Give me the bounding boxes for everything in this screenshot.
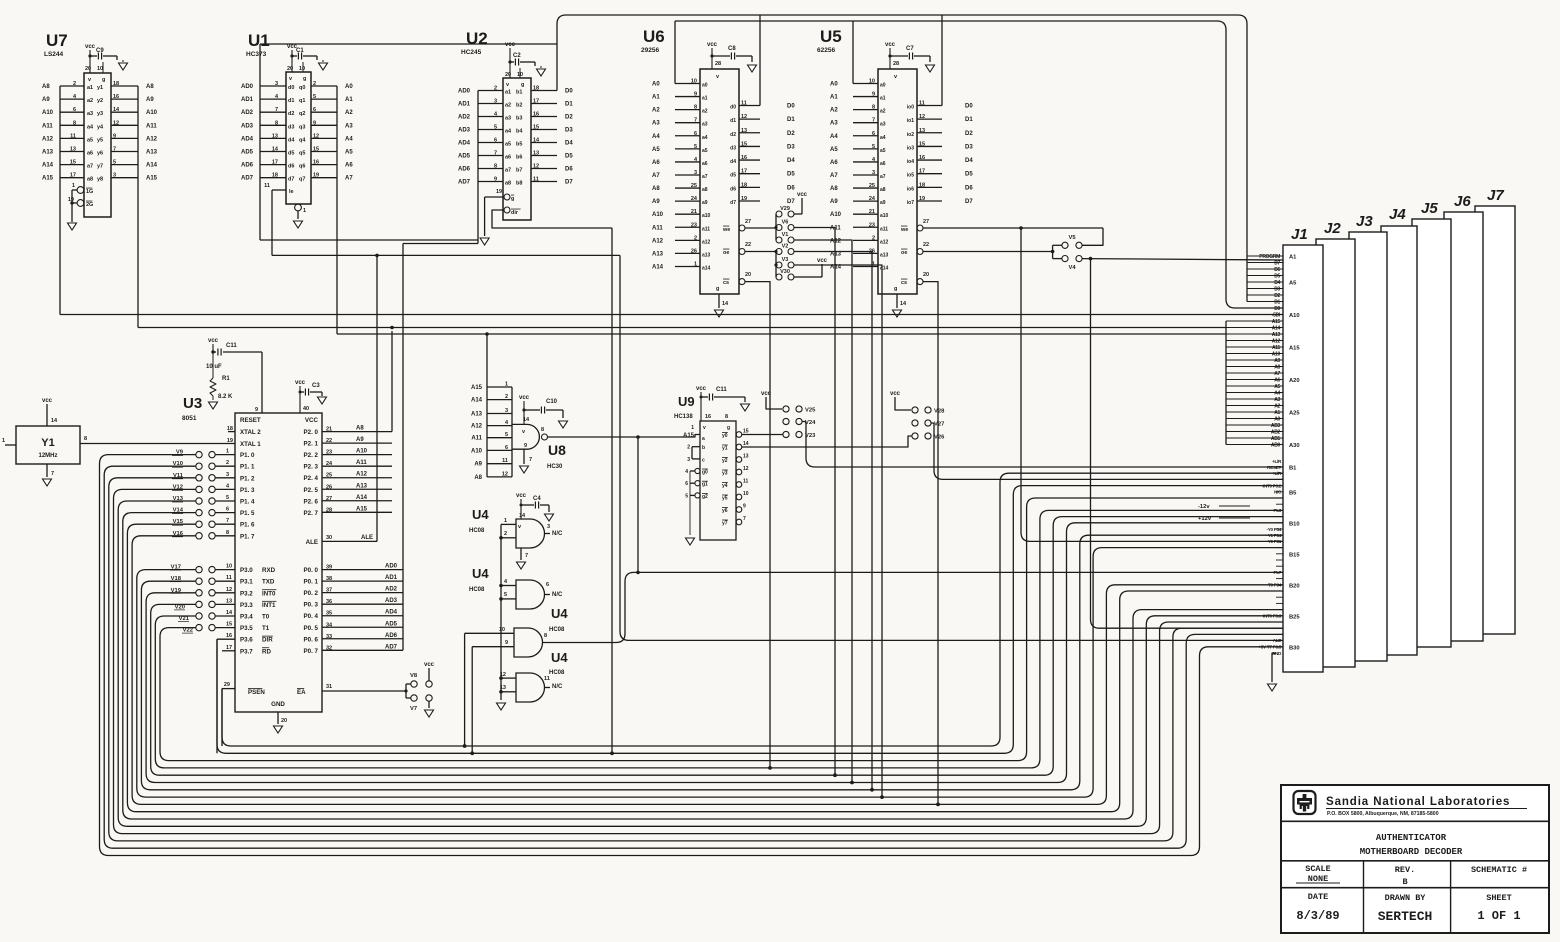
svg-text:1G: 1G [86, 189, 93, 195]
wire U9 y0 to jumper V23 [742, 434, 783, 436]
wire from jumper V18 through bundle to J1 [141, 535, 1283, 790]
svg-text:A13: A13 [146, 150, 158, 156]
svg-text:io2: io2 [907, 132, 914, 138]
wire V27 drop to J1 [932, 423, 1284, 479]
svg-text:PL3: PL3 [1273, 508, 1281, 513]
svg-text:P0. 2: P0. 2 [304, 590, 319, 597]
svg-text:U4: U4 [551, 606, 568, 621]
and gate U4b [516, 580, 545, 609]
svg-text:T0 P34: T0 P34 [1268, 583, 1282, 588]
svg-text:d1: d1 [288, 98, 294, 104]
svg-text:2: 2 [226, 460, 229, 466]
svg-text:V6: V6 [782, 220, 789, 226]
svg-text:V25: V25 [805, 408, 816, 414]
jumper V13 [196, 498, 202, 504]
svg-text:13: 13 [533, 151, 539, 157]
svg-text:1 OF 1: 1 OF 1 [1477, 909, 1520, 923]
svg-text:25: 25 [691, 183, 697, 189]
svg-text:Y1: Y1 [41, 437, 54, 449]
U6 address pins [675, 83, 700, 85]
svg-text:29256: 29256 [641, 47, 659, 54]
svg-text:10: 10 [517, 72, 523, 78]
svg-text:25: 25 [326, 473, 332, 479]
jumper V26 [912, 433, 918, 439]
svg-text:AD4: AD4 [458, 141, 471, 147]
svg-text:V21: V21 [179, 616, 190, 622]
svg-text:A13: A13 [830, 251, 842, 257]
U3 P3.6 pin [217, 638, 235, 640]
svg-text:17: 17 [272, 160, 278, 166]
svg-text:P1. 6: P1. 6 [240, 522, 255, 529]
svg-text:11: 11 [226, 575, 232, 581]
svg-text:-Y0 P34: -Y0 P34 [1267, 527, 1282, 532]
svg-text:22: 22 [745, 242, 751, 248]
svg-text:A10: A10 [471, 448, 483, 454]
svg-text:P2. 6: P2. 6 [304, 498, 319, 505]
wire D bus comb to J1 A1-A8 [1247, 255, 1283, 257]
svg-text:7: 7 [872, 118, 875, 124]
U4d pins [501, 677, 516, 679]
svg-text:2: 2 [73, 81, 76, 87]
svg-text:vcc: vcc [208, 338, 219, 344]
svg-text:g0: g0 [702, 470, 708, 476]
U3 ALE pin 30 [322, 540, 377, 542]
svg-text:7: 7 [529, 457, 532, 463]
svg-text:a: a [702, 436, 705, 442]
svg-text:a10: a10 [702, 213, 711, 219]
wire EA jumper bracket [405, 684, 407, 698]
svg-text:3: 3 [687, 457, 690, 463]
jumper V19 [196, 590, 202, 596]
svg-text:A6: A6 [345, 163, 353, 169]
ground for C10 [559, 421, 568, 428]
svg-text:SHEET: SHEET [1486, 893, 1512, 903]
svg-text:A12: A12 [146, 136, 158, 142]
svg-text:1: 1 [505, 382, 508, 388]
svg-text:A10: A10 [830, 212, 842, 218]
svg-text:A11: A11 [830, 225, 841, 231]
svg-text:D4: D4 [565, 141, 573, 147]
ground for U9 vcc [741, 404, 750, 411]
svg-text:a4: a4 [880, 135, 886, 141]
svg-text:A2: A2 [652, 108, 660, 114]
U1 latch enable pin 11 [272, 189, 286, 191]
svg-text:C11: C11 [716, 387, 727, 393]
svg-text:a2: a2 [505, 103, 511, 109]
svg-text:DATE: DATE [1308, 892, 1328, 902]
U3 P2 port wires A8-A15 [322, 431, 392, 433]
IC U6 body [700, 69, 739, 294]
wire V24 drop to J1 [803, 422, 1284, 468]
svg-text:V20: V20 [175, 604, 185, 610]
svg-text:U4: U4 [551, 650, 568, 665]
svg-text:3: 3 [226, 472, 229, 478]
svg-text:A11: A11 [1272, 345, 1281, 351]
svg-text:AD5: AD5 [385, 621, 398, 627]
svg-text:y7: y7 [722, 521, 728, 527]
svg-text:le: le [289, 189, 294, 195]
svg-text:P2. 1: P2. 1 [304, 441, 319, 448]
svg-text:A9: A9 [1274, 358, 1280, 364]
svg-text:J7: J7 [1487, 187, 1504, 204]
svg-text:B5: B5 [1289, 490, 1297, 496]
svg-text:5: 5 [313, 94, 316, 100]
svg-text:B25: B25 [1289, 614, 1300, 620]
U4a pins [501, 523, 516, 525]
svg-text:HC08: HC08 [549, 627, 565, 633]
svg-text:y7: y7 [97, 164, 103, 170]
svg-text:AD1: AD1 [241, 97, 254, 103]
ground at U7 pin 10 [119, 63, 128, 70]
svg-text:a1: a1 [87, 85, 93, 91]
svg-text:3: 3 [494, 99, 497, 105]
svg-text:A3: A3 [1274, 397, 1280, 403]
wire from jumper V9 through bundle to J1 [100, 455, 1284, 856]
svg-text:AD3: AD3 [241, 123, 254, 129]
svg-text:a9: a9 [702, 200, 708, 206]
svg-text:18: 18 [919, 182, 925, 188]
svg-text:d7: d7 [288, 177, 294, 183]
svg-text:D5: D5 [965, 172, 973, 178]
svg-text:a9: a9 [880, 200, 886, 206]
U5 address pins [853, 83, 878, 85]
jumper V3 [776, 262, 782, 268]
svg-text:16: 16 [226, 633, 232, 639]
svg-text:20: 20 [85, 66, 91, 72]
svg-text:P0. 7: P0. 7 [304, 648, 319, 655]
svg-text:V28: V28 [934, 409, 945, 415]
svg-text:23: 23 [869, 222, 875, 228]
svg-text:11: 11 [264, 183, 270, 189]
svg-text:D2: D2 [787, 131, 795, 137]
svg-text:A10: A10 [652, 212, 664, 218]
svg-text:10: 10 [691, 79, 697, 85]
svg-text:2: 2 [494, 86, 497, 92]
svg-text:A12: A12 [830, 238, 842, 244]
svg-text:C9: C9 [96, 48, 104, 54]
wire P3.6 to bundle [216, 639, 218, 753]
svg-text:V27: V27 [934, 422, 944, 428]
ground below R1 [209, 402, 218, 409]
svg-text:q5: q5 [299, 151, 305, 157]
svg-text:cs: cs [723, 280, 729, 286]
wire U5 cs down to bundle [923, 282, 938, 805]
jumper V10 [196, 463, 202, 469]
svg-text:37: 37 [326, 588, 332, 594]
svg-text:AD0: AD0 [241, 84, 254, 90]
U8 pin 7 ground [523, 449, 525, 464]
jumper V14 [196, 509, 202, 515]
svg-text:B20: B20 [1289, 583, 1300, 589]
svg-text:io6: io6 [907, 186, 914, 192]
svg-text:19: 19 [227, 438, 233, 444]
svg-text:g: g [894, 286, 897, 292]
svg-text:26: 26 [869, 248, 875, 254]
svg-text:D7: D7 [787, 199, 795, 205]
svg-text:D1: D1 [1274, 300, 1280, 306]
svg-text:D5: D5 [787, 172, 795, 178]
svg-text:9: 9 [255, 407, 258, 413]
svg-text:AD4: AD4 [385, 610, 398, 616]
svg-text:2: 2 [694, 235, 697, 241]
svg-text:A7: A7 [652, 173, 660, 179]
svg-text:V8: V8 [410, 673, 418, 679]
svg-text:14: 14 [722, 301, 729, 307]
wire AD bus net U1 to U2 [260, 239, 478, 241]
svg-text:a8: a8 [880, 187, 886, 193]
svg-text:V5: V5 [1068, 235, 1076, 241]
jumper V9 [196, 451, 202, 457]
svg-text:a1: a1 [505, 90, 511, 96]
svg-text:d5: d5 [288, 151, 294, 157]
svg-text:DIR: DIR [262, 637, 273, 644]
svg-text:g: g [727, 425, 730, 431]
wire bundle line 1 to J1 [217, 486, 1283, 754]
wire from jumper V11 through bundle to J1 [109, 478, 1283, 841]
svg-text:P2. 3: P2. 3 [304, 464, 319, 471]
U5 control pins we oe cs [917, 225, 923, 231]
svg-text:9: 9 [872, 92, 875, 98]
svg-text:31: 31 [326, 684, 332, 690]
svg-text:12MHz: 12MHz [38, 453, 57, 459]
svg-text:18: 18 [272, 173, 278, 179]
wire U4c input 10 to bundle [464, 633, 466, 746]
svg-text:a5: a5 [880, 148, 886, 154]
svg-text:33: 33 [326, 634, 332, 640]
wire from jumper V15 through bundle to J1 [127, 524, 1283, 812]
svg-text:8: 8 [73, 120, 76, 126]
svg-text:6: 6 [494, 138, 497, 144]
svg-text:7: 7 [494, 151, 497, 157]
svg-text:AD4: AD4 [241, 136, 254, 142]
wire U4c output to J1 [543, 572, 1284, 642]
svg-text:RESET: RESET [1267, 465, 1281, 470]
wire U6 A bus up to top [674, 21, 676, 84]
svg-text:2: 2 [872, 235, 875, 241]
svg-text:a4: a4 [702, 135, 708, 141]
svg-text:d2: d2 [730, 132, 736, 138]
svg-text:A1: A1 [1274, 410, 1280, 416]
svg-text:P3.5: P3.5 [240, 625, 253, 632]
svg-text:17: 17 [533, 99, 539, 105]
wire U8 output drop [637, 437, 639, 572]
svg-text:P0. 3: P0. 3 [304, 602, 319, 609]
svg-text:A2: A2 [830, 108, 838, 114]
svg-text:A13: A13 [1272, 332, 1281, 338]
svg-text:a7: a7 [87, 164, 93, 170]
svg-text:g2: g2 [702, 494, 708, 500]
svg-text:V23: V23 [805, 433, 816, 439]
wire jumper bracket V6 V1 [775, 228, 777, 241]
svg-text:A15: A15 [1289, 346, 1300, 352]
svg-text:AB1: AB1 [1271, 436, 1281, 442]
svg-text:y6: y6 [722, 508, 728, 514]
svg-text:18: 18 [741, 182, 747, 188]
svg-text:6: 6 [313, 107, 316, 113]
jumper V17 [196, 566, 202, 572]
svg-text:11: 11 [743, 479, 749, 485]
svg-text:18: 18 [533, 86, 539, 92]
wire bundle line 0 to J1 [222, 473, 1283, 746]
U3 GND pin 20 [277, 712, 279, 724]
ground at U5 top [926, 65, 935, 72]
svg-text:U8: U8 [548, 442, 566, 458]
svg-text:18: 18 [113, 81, 119, 87]
svg-text:P1. 2: P1. 2 [240, 475, 255, 482]
svg-text:a7: a7 [880, 174, 886, 180]
svg-text:20: 20 [505, 72, 511, 78]
svg-text:14: 14 [226, 610, 233, 616]
svg-text:62256: 62256 [817, 47, 835, 54]
svg-text:a5: a5 [87, 137, 93, 143]
svg-text:6: 6 [226, 507, 229, 513]
svg-text:oe: oe [723, 250, 729, 256]
svg-text:D0: D0 [965, 104, 973, 110]
svg-text:+L/R: +L/R [1272, 471, 1282, 476]
IC U2 body [503, 78, 531, 220]
svg-text:HC08: HC08 [549, 670, 565, 676]
svg-text:vcc: vcc [516, 493, 527, 499]
IC U1 body [286, 72, 311, 204]
svg-text:5: 5 [872, 144, 875, 150]
svg-text:D6: D6 [1274, 267, 1280, 273]
svg-text:A12: A12 [471, 424, 483, 430]
svg-text:13: 13 [272, 133, 278, 139]
svg-text:A13: A13 [652, 251, 664, 257]
wire top address bus to J1 [675, 21, 1283, 308]
svg-text:Y0 P31: Y0 P31 [1268, 539, 1282, 544]
svg-text:14: 14 [743, 441, 749, 447]
svg-text:g: g [521, 82, 524, 88]
svg-text:D5: D5 [1274, 274, 1280, 280]
svg-text:2: 2 [687, 445, 690, 451]
svg-text:P3.1: P3.1 [240, 579, 253, 586]
crystal Y1 [16, 426, 80, 464]
jumper V21 [196, 613, 202, 619]
svg-text:ALE: ALE [1273, 638, 1282, 643]
svg-text:4: 4 [685, 469, 688, 475]
svg-text:1: 1 [504, 518, 507, 524]
svg-text:a1: a1 [702, 96, 708, 102]
svg-text:a0: a0 [880, 83, 886, 89]
svg-text:q6: q6 [299, 164, 305, 170]
svg-text:5: 5 [694, 144, 697, 150]
IC U7 body [84, 73, 111, 217]
svg-text:A1: A1 [830, 95, 838, 101]
wire from jumper V10 through bundle to J1 [104, 466, 1283, 848]
svg-text:7: 7 [743, 516, 746, 522]
U3 P3.7 pin [222, 650, 235, 652]
svg-text:D2: D2 [1274, 293, 1280, 299]
capacitor C11 [213, 351, 216, 353]
svg-text:16: 16 [741, 155, 747, 161]
wire V4 drop to J1 B27 [1091, 259, 1284, 629]
svg-text:15: 15 [743, 429, 749, 435]
svg-text:PSEN: PSEN [248, 689, 265, 696]
svg-text:A11: A11 [356, 460, 367, 466]
svg-text:A0: A0 [1274, 417, 1280, 423]
svg-text:27: 27 [326, 496, 332, 502]
Y1 pin 7 to ground [46, 464, 48, 477]
wire U8 output to U9 [548, 435, 701, 438]
svg-text:12: 12 [226, 587, 232, 593]
svg-text:A11: A11 [146, 123, 157, 129]
wire U1 out bus A13 to comb [337, 333, 1226, 335]
wire from jumper V22 through bundle to J1 [160, 498, 1283, 761]
svg-text:+12v: +12v [1198, 516, 1212, 522]
svg-text:V3: V3 [782, 257, 789, 263]
jumper V24 [783, 418, 789, 424]
svg-text:P1. 1: P1. 1 [240, 464, 255, 471]
svg-text:a0: a0 [702, 83, 708, 89]
wire U3 A bus up [391, 331, 393, 432]
wire from jumper V13 through bundle to J1 [118, 501, 1283, 826]
wire ALE drop to J1 [620, 255, 1283, 640]
svg-text:V29: V29 [780, 206, 790, 212]
svg-text:DRAWN BY: DRAWN BY [1385, 893, 1427, 903]
svg-text:11: 11 [544, 676, 550, 682]
wire U1 pin11 down to ALE net [271, 190, 273, 255]
svg-text:A10: A10 [1289, 313, 1300, 319]
wire V1 drop to bundle [794, 240, 852, 783]
U5 data pins [917, 105, 942, 107]
svg-text:P3.4: P3.4 [240, 614, 253, 621]
svg-text:D1: D1 [965, 117, 973, 123]
svg-text:a3: a3 [880, 122, 886, 128]
IC U9 body [700, 421, 736, 540]
svg-text:A14: A14 [356, 495, 368, 501]
svg-text:2: 2 [313, 81, 316, 87]
ground for C4 [545, 514, 554, 521]
svg-text:2G: 2G [86, 202, 93, 208]
svg-text:10 uF: 10 uF [206, 364, 222, 370]
svg-text:12: 12 [741, 114, 747, 120]
svg-text:a11: a11 [880, 226, 888, 232]
svg-text:17: 17 [70, 173, 76, 179]
svg-text:AD2: AD2 [385, 587, 398, 593]
svg-text:a4: a4 [87, 124, 94, 130]
svg-text:SCHEMATIC #: SCHEMATIC # [1471, 865, 1527, 875]
jumper V1 [776, 237, 782, 243]
svg-text:-INT0 P3.2: -INT0 P3.2 [1262, 483, 1282, 488]
ground below U7 [68, 223, 77, 230]
svg-text:21: 21 [326, 427, 332, 433]
svg-text:D7: D7 [565, 180, 573, 186]
svg-text:RESET: RESET [240, 417, 261, 424]
svg-text:8051: 8051 [182, 415, 197, 422]
svg-text:15: 15 [919, 141, 925, 147]
svg-text:a4: a4 [505, 129, 512, 135]
svg-text:TXD: TXD [262, 579, 275, 586]
svg-text:AD7: AD7 [458, 180, 471, 186]
svg-text:RD: RD [262, 648, 271, 655]
svg-text:1: 1 [303, 208, 306, 214]
and gate U4c [514, 628, 543, 657]
jumper V18 [196, 578, 202, 584]
svg-text:AD1: AD1 [458, 102, 471, 108]
svg-text:10: 10 [97, 66, 103, 72]
svg-text:b6: b6 [516, 155, 522, 161]
svg-text:AD6: AD6 [241, 163, 254, 169]
wire to U3 RESET pin 9 [261, 352, 263, 413]
svg-text:MOTHERBOARD DECODER: MOTHERBOARD DECODER [1360, 847, 1463, 857]
svg-text:A10: A10 [146, 110, 158, 116]
svg-text:P2. 2: P2. 2 [304, 452, 319, 459]
svg-text:9: 9 [694, 92, 697, 98]
svg-text:A9: A9 [652, 199, 660, 205]
wire V29 to V6 tie [775, 214, 777, 228]
svg-text:y1: y1 [722, 446, 728, 452]
